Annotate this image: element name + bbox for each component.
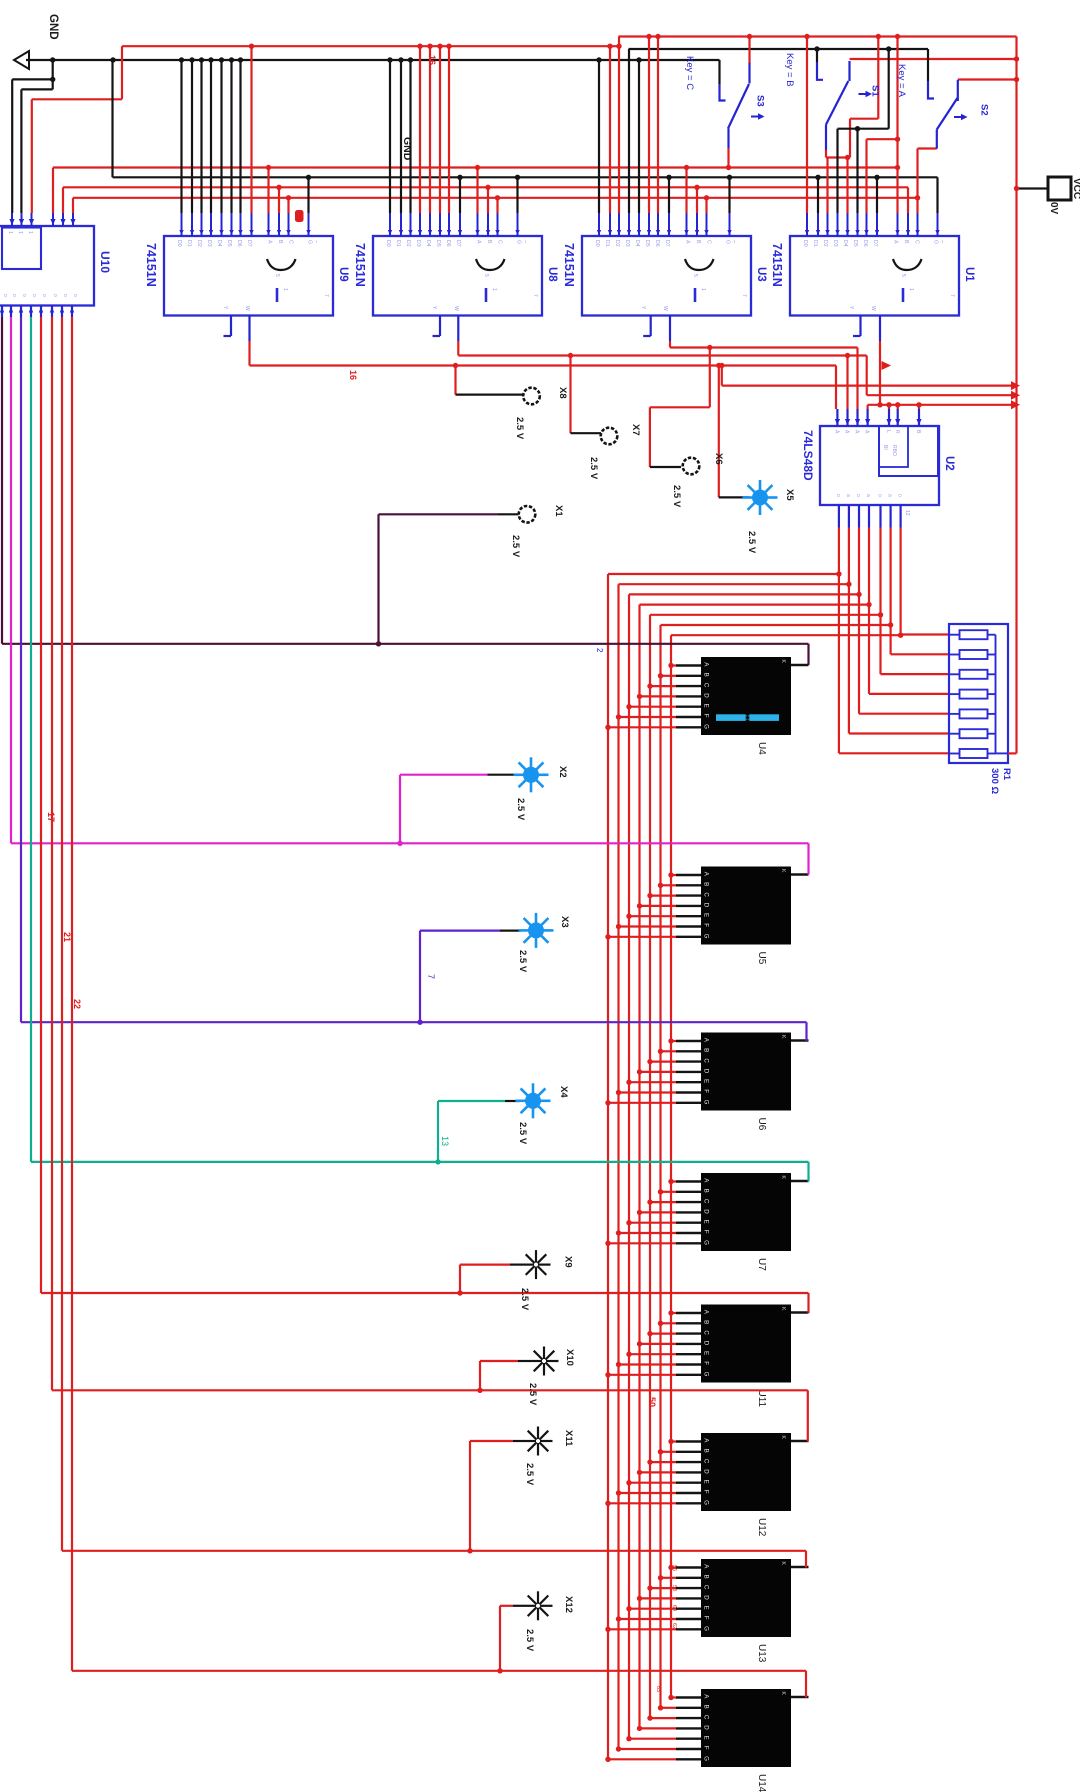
- svg-text:X5: X5: [784, 489, 795, 501]
- svg-text:12: 12: [904, 510, 910, 516]
- svg-text:50: 50: [647, 1397, 657, 1407]
- decoder 74LS48D U2: [820, 426, 939, 505]
- svg-text:E: E: [703, 1220, 710, 1224]
- VCC 0V square power symbol: [1048, 177, 1071, 200]
- svg-text:D3: D3: [624, 240, 630, 247]
- svg-text:W: W: [244, 306, 250, 311]
- svg-text:o: o: [897, 494, 903, 497]
- svg-text:2.5 V: 2.5 V: [524, 1463, 535, 1486]
- wire U9 D7 (red): [250, 46, 252, 213]
- wire U9 Y output stub: [230, 316, 232, 337]
- svg-text:~: ~: [731, 240, 737, 243]
- svg-text:G: G: [703, 934, 710, 939]
- svg-text:21: 21: [62, 932, 72, 942]
- svg-text:F: F: [703, 1089, 710, 1093]
- svg-text:C: C: [914, 240, 920, 244]
- wire U1 D7 (black): [876, 177, 878, 213]
- svg-text:F: F: [703, 1361, 710, 1365]
- 74151N mux U1: [790, 236, 959, 316]
- svg-text:C: C: [703, 1058, 710, 1063]
- svg-text:D5: D5: [644, 240, 650, 247]
- svg-text:D0: D0: [594, 240, 600, 247]
- svg-text:S1: S1: [870, 85, 881, 97]
- svg-text:C: C: [703, 1199, 710, 1204]
- wire red select bus A y=167.5: [53, 166, 898, 168]
- svg-text:D1: D1: [186, 240, 192, 247]
- svg-text:o: o: [877, 494, 883, 497]
- wire U1 D2 (red staircase): [826, 158, 828, 214]
- svg-text:D4: D4: [634, 240, 640, 247]
- indicator lamp X2 (lit, blue): [514, 757, 549, 792]
- svg-text:U9: U9: [337, 267, 349, 282]
- svg-text:U8: U8: [546, 267, 558, 282]
- svg-text:Y: Y: [848, 306, 854, 310]
- svg-text:U11: U11: [756, 1390, 767, 1408]
- wire X5 riser (to lit lamp): [718, 366, 720, 498]
- svg-text:U7: U7: [756, 1258, 767, 1271]
- svg-text:B: B: [277, 240, 283, 244]
- svg-text:S2: S2: [979, 104, 990, 116]
- 7-segment display U13: [701, 1559, 791, 1637]
- svg-text:D4: D4: [842, 240, 848, 247]
- wires bus elbows into U11: [608, 1374, 676, 1376]
- svg-text:1: 1: [7, 231, 13, 234]
- svg-text:X10: X10: [564, 1349, 575, 1366]
- svg-text:G: G: [703, 1626, 710, 1631]
- svg-text:F: F: [703, 1490, 710, 1494]
- wire S1 pole from black bus: [816, 49, 818, 62]
- svg-text:R1: R1: [1001, 768, 1012, 781]
- svg-text:A: A: [844, 430, 850, 434]
- wire VCC to red rail: [1017, 187, 1048, 189]
- svg-text:A: A: [476, 240, 482, 244]
- wires 7-segment bus verticals: [607, 574, 609, 1759]
- svg-text:Key = A: Key = A: [896, 64, 907, 98]
- svg-text:G: G: [703, 1500, 710, 1505]
- svg-text:A: A: [854, 430, 860, 434]
- svg-text:X6: X6: [713, 453, 724, 465]
- svg-text:7: 7: [949, 294, 955, 297]
- svg-text:74151N: 74151N: [562, 243, 576, 287]
- indicator lamp X1 (circle probe): [519, 506, 536, 523]
- svg-text:0V: 0V: [1048, 202, 1059, 215]
- wire U3 D7 (black): [668, 177, 670, 213]
- svg-text:W: W: [870, 306, 876, 311]
- svg-text:X4: X4: [558, 1086, 569, 1098]
- svg-text:o: o: [835, 494, 841, 497]
- pin wires U10 top red: [52, 168, 54, 214]
- svg-text:D1: D1: [395, 240, 401, 247]
- svg-text:1: 1: [700, 288, 706, 291]
- svg-text:A: A: [864, 430, 870, 434]
- svg-text:U2: U2: [943, 456, 955, 471]
- svg-text:B: B: [703, 882, 710, 886]
- svg-text:D0: D0: [802, 240, 808, 247]
- wire U9 enable G: [307, 177, 309, 213]
- wires bus elbows into U5: [608, 936, 676, 938]
- svg-text:o: o: [2, 294, 8, 297]
- wire U1 D4 (red): [846, 158, 848, 214]
- pin stubs of U4: [676, 664, 701, 666]
- svg-text:X7: X7: [630, 424, 641, 436]
- 74151N mux U9: [164, 236, 333, 316]
- svg-text:16: 16: [427, 55, 437, 65]
- svg-text:G: G: [703, 724, 710, 729]
- svg-text:G: G: [307, 240, 313, 244]
- U2 bottom pin stubs: [838, 505, 840, 528]
- wire on-page connector branch y=395.2: [867, 394, 1012, 396]
- svg-text:7: 7: [426, 974, 436, 979]
- wire net X12 (red) U10 pin8 to U14: [71, 317, 73, 1671]
- svg-text:X1: X1: [553, 505, 564, 517]
- svg-text:A: A: [893, 240, 899, 244]
- wires bus elbows into U14: [608, 1758, 676, 1760]
- svg-text:K: K: [780, 1176, 786, 1180]
- indicator lamp X12 (off): [524, 1591, 553, 1620]
- wire red VCC rail x=1016.5: [1015, 37, 1017, 754]
- svg-text:VCC: VCC: [1071, 178, 1080, 199]
- svg-text:~: ~: [939, 240, 945, 243]
- svg-text:C: C: [288, 240, 294, 244]
- svg-text:C: C: [703, 1459, 710, 1464]
- svg-text:1: 1: [27, 231, 33, 234]
- wire GND staircase to U10 pins: [52, 60, 54, 89]
- svg-text:300 Ω: 300 Ω: [989, 768, 1000, 794]
- wire U1 select B: [907, 187, 909, 213]
- svg-text:5: 5: [483, 274, 489, 277]
- wire U3 D1 (red): [609, 46, 611, 213]
- wire U8 W output net to X7 and U2 B: [457, 316, 459, 342]
- svg-text:a: a: [865, 494, 871, 497]
- svg-text:F: F: [703, 714, 710, 718]
- indicator lamp X9 (off): [522, 1250, 551, 1279]
- pin stubs of U14: [676, 1696, 701, 1698]
- svg-text:o: o: [31, 294, 37, 297]
- svg-text:o: o: [41, 294, 47, 297]
- svg-text:o: o: [62, 294, 68, 297]
- svg-text:5: 5: [692, 274, 698, 277]
- svg-text:2.5 V: 2.5 V: [515, 798, 526, 821]
- svg-text:2.5 V: 2.5 V: [524, 1629, 535, 1652]
- wire U1 W output with connector arrow: [879, 316, 881, 342]
- svg-text:D7: D7: [872, 240, 878, 247]
- junction dots on GND bus: [50, 57, 55, 62]
- svg-text:13: 13: [440, 1136, 450, 1146]
- svg-text:D: D: [703, 1341, 710, 1346]
- svg-text:2.5 V: 2.5 V: [519, 1288, 530, 1311]
- svg-text:7: 7: [741, 294, 747, 297]
- pin stubs of U7: [676, 1180, 701, 1182]
- svg-text:F: F: [703, 923, 710, 927]
- wires U2 segment outputs staircase to display bus and R1: [608, 573, 839, 575]
- wire U8 D7 (black from enable bus): [459, 177, 461, 213]
- wire U3 D4 (black): [638, 60, 640, 213]
- svg-text:D: D: [703, 1725, 710, 1730]
- svg-text:RBO: RBO: [891, 445, 897, 456]
- svg-text:D: D: [703, 1595, 710, 1600]
- wire U1 D0 (red): [806, 37, 808, 214]
- svg-text:D3: D3: [832, 240, 838, 247]
- wires bus elbows into U6: [608, 1102, 676, 1104]
- svg-text:D: D: [703, 1209, 710, 1214]
- svg-text:B: B: [695, 240, 701, 244]
- wire U1 select C (from S2): [916, 149, 918, 214]
- wire red feed S1 upper y=59: [850, 58, 1017, 60]
- svg-text:Key = B: Key = B: [784, 53, 795, 87]
- svg-text:B: B: [703, 1048, 710, 1052]
- svg-text:E: E: [703, 1480, 710, 1484]
- svg-text:2.5 V: 2.5 V: [671, 485, 682, 508]
- svg-text:63: 63: [655, 1686, 661, 1692]
- svg-text:E: E: [703, 704, 710, 708]
- svg-text:D7: D7: [664, 240, 670, 247]
- svg-text:U3: U3: [755, 267, 767, 282]
- wire S3 upper throw to red bus: [748, 37, 750, 64]
- svg-text:D5: D5: [435, 240, 441, 247]
- svg-text:D3: D3: [415, 240, 421, 247]
- ground symbol GND: [14, 51, 29, 69]
- svg-text:X8: X8: [557, 387, 568, 399]
- svg-text:Y: Y: [640, 306, 646, 310]
- svg-text:A: A: [267, 240, 273, 244]
- wire GND bus (black, y=60): [26, 59, 720, 61]
- indicator lamp X11 (off): [524, 1427, 553, 1456]
- svg-text:D4: D4: [216, 240, 222, 247]
- svg-text:E: E: [703, 913, 710, 917]
- svg-text:Y: Y: [222, 306, 228, 310]
- svg-text:22: 22: [72, 999, 82, 1009]
- wires U8 data inputs D0-D2 (black): [389, 60, 391, 213]
- svg-text:G: G: [703, 1240, 710, 1245]
- svg-text:Y: Y: [431, 306, 437, 310]
- wires U8 data inputs D3-D6 (red): [419, 46, 421, 213]
- svg-text:~: ~: [522, 240, 528, 243]
- svg-text:2.5 V: 2.5 V: [517, 1122, 528, 1145]
- svg-text:K: K: [780, 869, 786, 873]
- svg-text:D0: D0: [385, 240, 391, 247]
- svg-text:C: C: [703, 1330, 710, 1335]
- svg-text:E: E: [703, 1079, 710, 1083]
- svg-text:X9: X9: [563, 1256, 574, 1268]
- 74151N mux U3: [582, 236, 751, 316]
- svg-text:G: G: [703, 1756, 710, 1761]
- svg-text:B: B: [703, 1320, 710, 1324]
- svg-text:74LS48D: 74LS48D: [801, 430, 815, 481]
- svg-text:D6: D6: [445, 240, 451, 247]
- svg-text:F: F: [703, 1230, 710, 1234]
- svg-text:C: C: [703, 892, 710, 897]
- pin stubs of U13: [676, 1566, 701, 1568]
- svg-text:D2: D2: [822, 240, 828, 247]
- svg-text:K: K: [780, 1692, 786, 1696]
- wire net X1 (dark violet) U10 pin1 to U4: [1, 317, 3, 644]
- switch S2 (Key = A): [928, 80, 968, 130]
- wire S2 lower throw to U1 C: [936, 130, 938, 149]
- svg-text:D0: D0: [176, 240, 182, 247]
- svg-text:R: R: [894, 430, 900, 434]
- svg-text:D: D: [703, 1469, 710, 1474]
- wire U1 Y output stub: [859, 316, 861, 337]
- svg-text:F: F: [703, 1616, 710, 1620]
- wire on-page connector branch y=385.6: [721, 366, 723, 386]
- wires bus elbows into U13: [608, 1628, 676, 1630]
- wire net X11 (red) U10 pin7 to U13: [61, 317, 63, 1551]
- connector U10: [0, 213, 94, 317]
- svg-text:C: C: [703, 683, 710, 688]
- svg-text:7: 7: [532, 294, 538, 297]
- svg-text:U6: U6: [756, 1118, 767, 1131]
- indicator lamp X5 (lit, blue): [743, 480, 778, 515]
- svg-text:D4: D4: [425, 240, 431, 247]
- svg-text:G: G: [516, 240, 522, 244]
- wires U9 select A B C: [267, 168, 269, 214]
- svg-text:B: B: [703, 1575, 710, 1579]
- 7-segment display U7: [701, 1173, 791, 1251]
- svg-text:B: B: [703, 1189, 710, 1193]
- wire red select bus C y=197.8: [73, 197, 918, 199]
- svg-text:o: o: [72, 294, 78, 297]
- svg-text:X12: X12: [563, 1596, 574, 1613]
- U2 top pin stubs: [836, 409, 838, 426]
- svg-text:1: 1: [491, 288, 497, 291]
- svg-text:K: K: [780, 1436, 786, 1440]
- indicator lamp X10 (off): [530, 1347, 559, 1376]
- svg-text:G: G: [703, 1100, 710, 1105]
- 7-segment display U11: [701, 1305, 791, 1383]
- svg-text:7: 7: [323, 294, 329, 297]
- svg-text:5: 5: [274, 274, 280, 277]
- svg-text:X11: X11: [563, 1430, 574, 1447]
- wire U3 D2 (red, bus corner): [618, 37, 620, 214]
- svg-text:1: 1: [17, 231, 23, 234]
- wire U3 D3 (black, bus corner): [628, 49, 630, 213]
- wire S3 lower throw to bus A: [727, 129, 729, 149]
- svg-text:D2: D2: [614, 240, 620, 247]
- wire U1 D6 (red): [865, 139, 867, 213]
- svg-text:C: C: [497, 240, 503, 244]
- wire LT/RBI tie line y=404.8: [868, 404, 1012, 406]
- wire U3 W output net to X6 and U2 C: [669, 316, 671, 342]
- pin stubs of U6: [676, 1040, 701, 1042]
- 74151N mux U8: [373, 236, 542, 316]
- wire U3 enable G: [728, 177, 730, 213]
- svg-text:D7: D7: [455, 240, 461, 247]
- svg-text:S3: S3: [755, 95, 766, 107]
- wires bus elbows into U7: [608, 1242, 676, 1244]
- svg-text:C: C: [706, 240, 712, 244]
- wires U2 LT RBI BI pins from tie line: [888, 405, 890, 409]
- switch S3 (Key = C): [720, 63, 765, 129]
- svg-text:U14: U14: [756, 1774, 767, 1792]
- wire net X3 (purple) U10 pin3 to U6: [20, 317, 22, 1022]
- wire U1 D3 (black staircase): [836, 129, 838, 213]
- svg-text:B: B: [486, 240, 492, 244]
- wire U9 W output net to X8 and U2 A: [248, 316, 250, 342]
- wire S1 lower throw joins D2/D4 net: [825, 125, 827, 151]
- svg-text:16: 16: [348, 370, 358, 380]
- svg-text:GND: GND: [47, 14, 59, 40]
- wires bus elbows into U12: [608, 1502, 676, 1504]
- wire red staircase to U10 pin 3: [121, 46, 123, 99]
- wire U3 D0 (black): [598, 60, 600, 213]
- wire red bus y=46 (left): [122, 45, 619, 47]
- svg-text:2.5 V: 2.5 V: [510, 535, 521, 558]
- wire U1 D1 (black): [817, 177, 819, 213]
- svg-text:X2: X2: [557, 766, 568, 778]
- pin stubs of U5: [676, 874, 701, 876]
- svg-text:o: o: [855, 494, 861, 497]
- wire red feed S2 upper y=79.5: [958, 78, 1017, 80]
- svg-text:a: a: [845, 494, 851, 497]
- svg-text:74151N: 74151N: [770, 243, 784, 287]
- svg-text:E: E: [703, 1606, 710, 1610]
- svg-text:D2: D2: [405, 240, 411, 247]
- wire S2 pole from black bus: [927, 49, 929, 81]
- svg-text:G: G: [703, 1372, 710, 1377]
- wires U9 data inputs D0-D6 (black): [180, 60, 182, 213]
- 7-segment display U6: [701, 1033, 791, 1111]
- wire net X10 (red) U10 pin6 to U12: [51, 317, 53, 1390]
- svg-text:F: F: [703, 1746, 710, 1750]
- svg-text:X3: X3: [559, 916, 570, 928]
- svg-text:1: 1: [908, 288, 914, 291]
- junction blob near U9 (red): [295, 210, 304, 222]
- svg-text:~: ~: [313, 240, 319, 243]
- svg-text:U10: U10: [98, 251, 112, 273]
- wires U8 select A B C: [476, 168, 478, 214]
- wire S3 pole from GND bus: [718, 60, 720, 84]
- svg-text:B: B: [703, 673, 710, 677]
- svg-text:E: E: [703, 1351, 710, 1355]
- svg-text:BI: BI: [882, 445, 888, 450]
- svg-text:B: B: [703, 1449, 710, 1453]
- svg-text:B: B: [915, 430, 921, 434]
- svg-text:D3: D3: [206, 240, 212, 247]
- wire net X4 (teal) U10 pin4 to U7: [30, 317, 32, 1162]
- indicator lamp X4 (lit, blue): [516, 1083, 551, 1118]
- wire U1 D5 (black): [856, 129, 858, 213]
- indicator lamp X3 (lit, blue): [519, 913, 554, 948]
- 7-segment display U4: [701, 657, 791, 735]
- svg-text:A: A: [833, 430, 839, 434]
- svg-text:W: W: [662, 306, 668, 311]
- svg-text:A: A: [685, 240, 691, 244]
- svg-text:D7: D7: [246, 240, 252, 247]
- svg-text:1: 1: [282, 288, 288, 291]
- svg-text:K: K: [780, 660, 786, 664]
- wire net X2 (magenta) U10 pin2 to U5: [10, 317, 12, 843]
- svg-text:L: L: [885, 430, 891, 433]
- svg-text:E: E: [703, 1736, 710, 1740]
- svg-text:U1: U1: [963, 267, 975, 282]
- svg-text:2.5 V: 2.5 V: [588, 457, 599, 480]
- svg-text:2.5 V: 2.5 V: [517, 950, 528, 973]
- 7-segment display U12: [701, 1433, 791, 1511]
- wires U3 select A B C: [685, 168, 687, 214]
- indicator lamp X8 (circle probe): [523, 388, 540, 405]
- wire U1 enable G: [936, 177, 938, 213]
- svg-text:a: a: [887, 494, 893, 497]
- svg-text:2.5 V: 2.5 V: [746, 531, 757, 554]
- wire U3 Y output stub: [650, 316, 652, 337]
- svg-text:D6: D6: [236, 240, 242, 247]
- svg-text:D: D: [703, 693, 710, 698]
- svg-text:K: K: [780, 1035, 786, 1039]
- svg-text:D6: D6: [862, 240, 868, 247]
- wire red select bus B y=187.3: [63, 186, 908, 188]
- svg-text:U12: U12: [756, 1518, 767, 1537]
- svg-text:C: C: [703, 1715, 710, 1720]
